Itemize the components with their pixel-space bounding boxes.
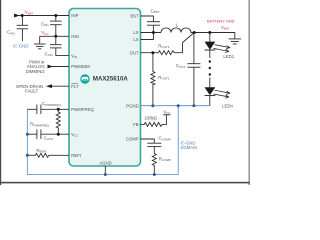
svg-text:MAX25610A: MAX25610A <box>93 75 128 82</box>
wire FLT <box>51 85 69 87</box>
svg-text:CIN2: CIN2 <box>7 30 15 36</box>
svg-text:INP: INP <box>71 13 78 18</box>
junction dots black <box>21 14 24 17</box>
svg-text:FLT: FLT <box>71 84 79 89</box>
junction dots blue <box>26 133 29 136</box>
svg-text:BATTERY GND: BATTERY GND <box>207 19 235 24</box>
LED string ellipsis dots <box>209 60 211 62</box>
svg-text:COMP: COMP <box>126 137 139 142</box>
IC U1 MAX25610A body <box>69 9 141 167</box>
svg-text:IC-GND: IC-GND <box>13 44 28 49</box>
VBAT input arrow <box>14 14 20 18</box>
PWMDIM input arrow <box>48 65 54 69</box>
wire LED1 to dots <box>209 50 211 58</box>
wire LED+ rail to battery gnd <box>194 33 235 39</box>
svg-text:CCOMP: CCOMP <box>159 136 171 142</box>
capacitor COUT <box>193 33 195 64</box>
capacitor CVCC row <box>27 133 37 135</box>
svg-text:DIMMING: DIMMING <box>26 69 46 74</box>
capacitor CVIN <box>55 36 57 44</box>
svg-text:CPWMFREQ: CPWMFREQ <box>42 101 61 107</box>
svg-text:VIN: VIN <box>71 53 77 59</box>
svg-text:LED1: LED1 <box>223 54 234 59</box>
capacitor CIN1 <box>55 16 57 22</box>
svg-text:COUT: COUT <box>176 63 186 69</box>
svg-text:FB: FB <box>133 122 139 127</box>
page frame bottom rule <box>0 182 250 184</box>
wire INN to IC <box>40 35 69 37</box>
resistor ROUT1 row <box>141 33 195 55</box>
svg-text:LX: LX <box>133 37 138 42</box>
svg-text:VCC: VCC <box>71 132 79 138</box>
capacitor CIN2 <box>21 16 23 26</box>
svg-text:PGND: PGND <box>126 103 138 108</box>
wire AGND stub <box>104 166 106 175</box>
wire LEDn cathode <box>209 96 211 106</box>
svg-text:VBAT: VBAT <box>25 10 34 16</box>
svg-text:FAULT: FAULT <box>25 89 38 94</box>
svg-text:CBST: CBST <box>151 8 160 14</box>
wire INN gnd branch <box>39 36 41 43</box>
svg-text:VCC: VCC <box>163 109 171 115</box>
wire LX2 <box>141 33 154 40</box>
capacitor CPWMFREQ row <box>27 108 37 110</box>
svg-text:RREFI: RREFI <box>36 148 46 154</box>
wire left vertical IC-GND <box>26 109 28 174</box>
svg-text:PWMDIM: PWMDIM <box>71 64 90 69</box>
wire bottom IC-GND rail <box>27 174 178 176</box>
ground symbol (IC gnd near INN) <box>34 43 46 45</box>
svg-text:CVCC: CVCC <box>44 135 54 141</box>
LED1 <box>205 42 230 53</box>
page frame left rule <box>0 0 1 185</box>
wire LX1 <box>141 32 162 34</box>
svg-text:CVIN: CVIN <box>45 51 53 57</box>
ground symbol BATTERY GND <box>229 38 241 40</box>
resistor RPWMFREQ <box>56 109 60 134</box>
capacitor CCOMP <box>147 142 161 144</box>
wire PGND row <box>141 105 210 107</box>
wire PWMDIM <box>52 66 69 68</box>
resistor RCOMP <box>152 147 156 175</box>
svg-text:DOMAIN: DOMAIN <box>181 145 198 150</box>
svg-text:LX: LX <box>133 30 138 35</box>
svg-text:AGND: AGND <box>99 160 111 165</box>
svg-text:VBAT: VBAT <box>221 25 230 31</box>
VCC stub bar <box>163 114 170 116</box>
inductor L <box>161 28 194 33</box>
wire right vertical IC-GND <box>177 106 179 175</box>
wire VBAT top rail <box>19 15 69 17</box>
svg-text:RPWMFREQ: RPWMFREQ <box>30 122 49 128</box>
capacitor CBST <box>147 21 160 23</box>
svg-text:LEDn: LEDn <box>222 103 233 108</box>
wire BST <box>141 16 154 22</box>
FLT output arrow <box>46 84 52 88</box>
blue IC-GND domain wires <box>27 106 210 175</box>
svg-text:INN: INN <box>71 34 78 39</box>
svg-text:RCOMP: RCOMP <box>159 156 171 162</box>
svg-text:CIN1: CIN1 <box>41 21 49 27</box>
svg-text:PWMFREQ: PWMFREQ <box>71 107 94 112</box>
page frame right rule <box>248 0 250 185</box>
svg-text:ROUT2: ROUT2 <box>158 75 169 81</box>
wire COMP <box>141 139 155 143</box>
resistor ROUT2 <box>151 53 155 106</box>
resistor RREFI <box>27 153 69 157</box>
svg-text:100kΩ: 100kΩ <box>144 115 157 120</box>
svg-text:REFI: REFI <box>71 153 81 158</box>
Maxim logo <box>80 74 89 83</box>
svg-text:OUT: OUT <box>130 50 139 55</box>
wire LED string anode <box>209 33 211 43</box>
svg-text:BST: BST <box>130 14 139 19</box>
svg-text:VCC: VCC <box>41 30 49 36</box>
svg-text:ROUT1: ROUT1 <box>158 43 169 49</box>
wire dots to LEDn <box>209 78 211 88</box>
LEDn <box>205 87 230 98</box>
resistor 100k FB row <box>141 115 167 127</box>
